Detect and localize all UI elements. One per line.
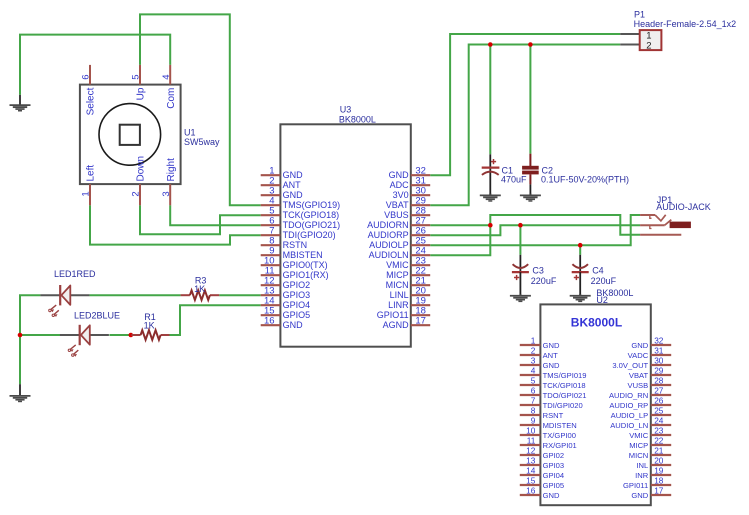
svg-text:RSNT: RSNT <box>543 411 564 420</box>
U3 pin 26 AUDIORP <box>368 226 431 241</box>
svg-text:6: 6 <box>81 75 92 80</box>
svg-text:GPI02: GPI02 <box>543 451 565 460</box>
U3 pin 24 AUDIOLN <box>369 246 431 261</box>
U2 pin 19 INR <box>635 465 671 480</box>
U3 pin 22 MICP <box>386 266 430 281</box>
U2 pin 15 GPI05 <box>520 475 564 490</box>
svg-text:17: 17 <box>415 316 426 327</box>
U3 pin 20 LINL <box>390 286 431 301</box>
U2 pin 1 GND <box>520 335 560 350</box>
svg-text:20: 20 <box>654 455 664 465</box>
wire U3 pin25 AUDIOLP to jack tip <box>430 215 640 245</box>
U3 pin 3 GND <box>261 186 303 201</box>
svg-text:GND: GND <box>283 320 304 330</box>
svg-text:ANT: ANT <box>543 351 559 360</box>
svg-text:220uF: 220uF <box>591 276 617 286</box>
svg-text:Right: Right <box>166 158 177 182</box>
svg-text:AUDIO-JACK: AUDIO-JACK <box>656 202 711 212</box>
U3 pin 18 GPIO11 <box>377 306 430 321</box>
wire U3 pin24 AUDIOLN to jack sleeve <box>430 215 640 255</box>
wire GND to LED1 anode <box>20 295 40 384</box>
svg-text:VMIC: VMIC <box>386 260 409 270</box>
U1 bottom pin 1 Left <box>81 165 97 206</box>
svg-text:TDI/GPI020: TDI/GPI020 <box>543 401 583 410</box>
wire LED1 to R3 <box>89 294 180 296</box>
label P1 refdes <box>634 10 645 20</box>
label C2 value 0.1UF-50V-20%(PTH) <box>541 174 629 184</box>
svg-text:5: 5 <box>531 375 536 385</box>
svg-text:2: 2 <box>646 40 651 51</box>
svg-text:32: 32 <box>654 335 664 345</box>
U2 pin 11 RX/GPI01 <box>520 435 577 450</box>
svg-text:GND: GND <box>389 170 410 180</box>
connector JP1 AUDIO-JACK <box>640 215 691 235</box>
U1 bottom pin 2 Down <box>131 156 147 205</box>
svg-text:11: 11 <box>527 435 536 445</box>
svg-text:VMIC: VMIC <box>629 431 649 440</box>
svg-text:ADC: ADC <box>390 180 410 190</box>
U2 pin 14 GPI04 <box>520 465 564 480</box>
U3 pin 30 3V0 <box>393 186 431 201</box>
svg-text:LINL: LINL <box>390 290 409 300</box>
U1 top pin 5 Up <box>131 65 147 100</box>
wire R3 to U3 pin13 GPIO3 <box>219 294 261 296</box>
svg-text:Down: Down <box>136 156 147 182</box>
svg-text:TMS(GPIO19): TMS(GPIO19) <box>283 200 341 210</box>
svg-text:2: 2 <box>531 345 536 355</box>
svg-text:16: 16 <box>264 316 275 327</box>
connector P1 Header-Female pin leads <box>620 34 640 45</box>
wire SW5way Left (pin1) to U3 pin7 TDI <box>90 205 261 244</box>
svg-text:INL: INL <box>636 461 648 470</box>
label R3 value 1K <box>194 284 205 294</box>
svg-text:AUDIORP: AUDIORP <box>368 230 409 240</box>
U2 pin 9 MDISTEN <box>520 415 577 430</box>
junction C4 node <box>578 243 583 248</box>
wire node to C3 <box>519 225 521 255</box>
wire R1 to U3 pin14 GPIO4 <box>170 305 261 335</box>
svg-text:VBUS: VBUS <box>384 210 409 220</box>
U3 pin 9 MBISTEN <box>261 246 323 261</box>
U3 pin 31 ADC <box>390 176 431 191</box>
wire VBAT rail to C2 <box>529 45 531 154</box>
U3 pin 17 AGND <box>383 316 431 331</box>
U2 pin 28 VUSB <box>628 375 672 390</box>
U2 pin 4 TMS/GPI019 <box>520 365 587 380</box>
svg-text:4: 4 <box>161 75 172 80</box>
svg-text:MICN: MICN <box>629 451 648 460</box>
U2 pin 23 VMIC <box>629 425 671 440</box>
label U1 value SW5way <box>184 137 220 147</box>
label C4 value 220uF <box>591 276 617 286</box>
op-amp U3 BK8000L IC body <box>280 124 410 346</box>
U2 pin 24 AUDIO_LN <box>610 415 671 430</box>
switch U1 SW5way body <box>80 85 181 185</box>
U3 pin 2 ANT <box>261 176 301 191</box>
label C3 refdes <box>532 266 544 276</box>
svg-text:10: 10 <box>526 425 536 435</box>
svg-text:AUDIORN: AUDIORN <box>367 220 409 230</box>
junction C3 node <box>518 223 523 228</box>
IC U2 BK8000L body <box>540 304 650 505</box>
svg-text:ANT: ANT <box>283 180 302 190</box>
label R3 refdes <box>195 276 207 286</box>
U3 pin 25 AUDIOLP <box>369 236 430 251</box>
U2 pin 12 GPI02 <box>520 445 564 460</box>
svg-text:29: 29 <box>654 365 664 375</box>
svg-text:2: 2 <box>131 191 142 196</box>
svg-text:19: 19 <box>654 465 664 475</box>
svg-text:TDO/GPI021: TDO/GPI021 <box>543 391 587 400</box>
svg-text:3: 3 <box>531 355 536 365</box>
svg-text:GPIO1(RX): GPIO1(RX) <box>283 270 329 280</box>
U3 pin 7 TDI(GPIO20) <box>261 226 336 241</box>
svg-text:U2: U2 <box>596 295 608 305</box>
LED LED2 (blue) <box>60 325 109 357</box>
svg-text:U1: U1 <box>184 128 196 138</box>
svg-text:MICP: MICP <box>386 270 409 280</box>
ground C2 ground <box>520 194 541 201</box>
svg-text:TDO(GPIO21): TDO(GPIO21) <box>283 220 341 230</box>
wire U3 pin29 VBAT to P1 pin2 <box>430 45 620 206</box>
U2 pin 31 VADC <box>628 345 672 360</box>
svg-text:470uF: 470uF <box>501 174 527 184</box>
svg-text:TX/GPI00: TX/GPI00 <box>543 431 576 440</box>
svg-text:LINR: LINR <box>388 300 409 310</box>
svg-text:GPIO2: GPIO2 <box>283 280 311 290</box>
svg-text:16: 16 <box>526 485 536 495</box>
svg-text:0.1UF-50V-20%(PTH): 0.1UF-50V-20%(PTH) <box>541 174 629 184</box>
svg-text:BK8000L: BK8000L <box>571 315 622 329</box>
U2 pin 3 GND <box>520 355 560 370</box>
svg-text:AUDIO_RP: AUDIO_RP <box>609 401 648 410</box>
junction AUDIORN node <box>488 223 493 228</box>
svg-text:GND: GND <box>543 491 560 500</box>
svg-text:GND: GND <box>543 341 560 350</box>
svg-text:RSTN: RSTN <box>283 240 308 250</box>
U2 pin 26 AUDIO_RP <box>609 395 671 410</box>
svg-text:AUDIO_LP: AUDIO_LP <box>611 411 649 420</box>
svg-text:VUSB: VUSB <box>628 381 649 390</box>
U3 pin 27 AUDIORN <box>367 216 430 231</box>
svg-text:22: 22 <box>654 435 664 445</box>
svg-text:Left: Left <box>86 165 97 182</box>
svg-text:5: 5 <box>131 75 142 80</box>
svg-text:LED1RED: LED1RED <box>54 269 96 279</box>
label U1 refdes <box>184 128 196 138</box>
U3 pin 12 GPIO2 <box>261 276 310 291</box>
U3 pin 32 GND <box>389 166 431 181</box>
U2 pin 30 3.0V_OUT <box>612 355 671 370</box>
capacitor C3 220uF <box>512 255 529 295</box>
svg-text:14: 14 <box>526 465 536 475</box>
svg-text:AUDIOLN: AUDIOLN <box>369 250 409 260</box>
label JP1 refdes <box>657 195 673 205</box>
U3 pin 14 GPIO4 <box>261 296 310 311</box>
label LED2BLUE <box>74 311 120 321</box>
U2 pin 17 GND <box>631 485 671 500</box>
capacitor C4 220uF <box>572 255 589 295</box>
U2 pin 2 ANT <box>520 345 558 360</box>
svg-text:GPIO0(TX): GPIO0(TX) <box>283 260 328 270</box>
svg-text:VADC: VADC <box>628 351 649 360</box>
U1 top pin 6 Select <box>81 65 97 115</box>
U3 pin 8 RSTN <box>261 236 307 251</box>
U3 pin 6 TDO(GPIO21) <box>261 216 340 231</box>
U3 pin 15 GPIO5 <box>261 306 310 321</box>
junction LED2-R1 node <box>129 333 134 338</box>
svg-text:1K: 1K <box>144 320 155 330</box>
U2 pin 25 AUDIO_LP <box>611 405 672 420</box>
wire node to C4 <box>579 245 581 255</box>
svg-text:23: 23 <box>654 425 664 435</box>
wire GND to SW5way Com (pin4) <box>20 35 170 95</box>
capacitor C1 470uF <box>482 154 500 194</box>
svg-text:4: 4 <box>531 365 536 375</box>
svg-text:C3: C3 <box>532 266 544 276</box>
svg-text:Select: Select <box>86 87 97 115</box>
svg-text:3: 3 <box>161 191 172 196</box>
svg-text:VBAT: VBAT <box>386 200 409 210</box>
connector P1 body <box>640 30 662 51</box>
svg-text:12: 12 <box>526 445 536 455</box>
ground C4 ground <box>570 294 591 301</box>
svg-text:U3: U3 <box>340 104 352 114</box>
U3 pin 21 MICN <box>386 276 431 291</box>
svg-text:27: 27 <box>654 385 664 395</box>
svg-text:GND: GND <box>543 361 560 370</box>
label C4 refdes <box>592 266 604 276</box>
U3 pin 11 GPIO1(RX) <box>261 266 329 281</box>
U2 pin 6 TDO/GPI021 <box>520 385 587 400</box>
svg-text:18: 18 <box>654 475 664 485</box>
wire U3 pin32 GND to P1 pin1 <box>430 34 620 175</box>
svg-text:GND: GND <box>631 491 648 500</box>
svg-text:GPIO11: GPIO11 <box>377 310 409 320</box>
svg-text:MICP: MICP <box>629 441 648 450</box>
wire SW5way Down (pin2) to U3 pin5 TCK <box>140 205 261 234</box>
U2 pin 7 TDI/GPI020 <box>520 395 583 410</box>
svg-text:Up: Up <box>136 87 147 100</box>
svg-text:MICN: MICN <box>386 280 409 290</box>
svg-text:25: 25 <box>654 405 664 415</box>
svg-text:RX/GPI01: RX/GPI01 <box>543 441 577 450</box>
wire SW5way Right (pin3) to U3 pin6 TDO <box>170 205 261 225</box>
U3 pin 10 GPIO0(TX) <box>261 256 328 271</box>
svg-text:GPI03: GPI03 <box>543 461 565 470</box>
svg-text:26: 26 <box>654 395 664 405</box>
label U2 refdes <box>596 295 608 305</box>
svg-text:AUDIOLP: AUDIOLP <box>369 240 409 250</box>
U2 pin 13 GPI03 <box>520 455 564 470</box>
svg-text:GND: GND <box>283 190 304 200</box>
svg-text:BK8000L: BK8000L <box>339 114 376 124</box>
svg-text:7: 7 <box>531 395 536 405</box>
U3 pin 29 VBAT <box>386 196 430 211</box>
U2 pin 8 RSNT <box>520 405 564 420</box>
label R1 refdes <box>144 312 156 322</box>
svg-text:GPIO3: GPIO3 <box>283 290 311 300</box>
label C2 refdes <box>542 165 554 175</box>
svg-text:6: 6 <box>531 385 536 395</box>
wire U3 pin27 AUDIORN to node <box>430 224 490 226</box>
svg-text:AGND: AGND <box>383 320 410 330</box>
svg-text:LED2BLUE: LED2BLUE <box>74 311 120 321</box>
svg-text:GPIO5: GPIO5 <box>283 310 311 320</box>
svg-text:30: 30 <box>654 355 664 365</box>
wire U3 pin26 AUDIORP to jack ring <box>430 225 640 235</box>
resistor R1 1K <box>132 330 170 340</box>
label C3 value 220uF <box>531 276 557 286</box>
svg-text:Com: Com <box>166 88 177 109</box>
svg-text:15: 15 <box>526 475 536 485</box>
U1 top pin 4 Com <box>161 65 177 109</box>
U2 pin 16 GND <box>520 485 560 500</box>
svg-text:Header-Female-2.54_1x2: Header-Female-2.54_1x2 <box>634 19 737 29</box>
U2 pin 18 GPI011 <box>623 475 671 490</box>
label U3 refdes <box>340 104 352 114</box>
U2 pin 5 TCK/GPI018 <box>520 375 586 390</box>
svg-text:GPI011: GPI011 <box>623 481 648 490</box>
svg-text:TCK/GPI018: TCK/GPI018 <box>543 381 586 390</box>
label U3 value BK8000L <box>339 114 376 124</box>
svg-text:VBAT: VBAT <box>629 371 649 380</box>
svg-text:GND: GND <box>283 170 304 180</box>
junction VBAT-C2 <box>528 42 533 47</box>
ground bottom-left GND <box>10 384 31 401</box>
wire SW5way Up (pin5) to U3 pin4 TMS <box>140 14 261 205</box>
U3 pin 28 VBUS <box>384 206 430 221</box>
svg-text:SW5way: SW5way <box>184 137 220 147</box>
svg-text:24: 24 <box>654 415 664 425</box>
junction LED ground node <box>18 333 23 338</box>
U3 pin 16 GND <box>261 316 303 331</box>
label R1 value 1K <box>144 320 155 330</box>
svg-text:1: 1 <box>531 335 536 345</box>
label LED1RED <box>54 269 96 279</box>
svg-text:TDI(GPIO20): TDI(GPIO20) <box>283 230 336 240</box>
svg-text:17: 17 <box>654 485 664 495</box>
svg-text:13: 13 <box>526 455 536 465</box>
U3 pin 5 TCK(GPIO18) <box>261 206 339 221</box>
label JP1 value AUDIO-JACK <box>656 202 711 212</box>
U2 pin 20 INL <box>636 455 671 470</box>
label C1 refdes <box>502 165 514 175</box>
svg-text:AUDIO_RN: AUDIO_RN <box>609 391 648 400</box>
svg-text:28: 28 <box>654 375 664 385</box>
U3 pin 23 VMIC <box>386 256 430 271</box>
svg-text:3.0V_OUT: 3.0V_OUT <box>612 361 648 370</box>
svg-text:INR: INR <box>635 471 649 480</box>
svg-text:MDISTEN: MDISTEN <box>543 421 577 430</box>
U3 pin 13 GPIO3 <box>261 286 310 301</box>
svg-text:1K: 1K <box>194 284 205 294</box>
svg-text:TMS/GPI019: TMS/GPI019 <box>543 371 587 380</box>
ground top-left GND <box>10 95 31 111</box>
junction VBAT-C1 <box>488 42 493 47</box>
U2 pin 27 AUDIO_RN <box>609 385 671 400</box>
resistor R3 1K <box>181 290 220 300</box>
svg-text:9: 9 <box>531 415 536 425</box>
ground C1 ground <box>480 194 501 201</box>
U2 pin 32 GND <box>631 335 671 350</box>
label C1 value 470uF <box>501 174 527 184</box>
svg-text:1: 1 <box>81 191 92 196</box>
U1 bottom pin 3 Right <box>161 158 177 205</box>
svg-text:AUDIO_LN: AUDIO_LN <box>610 421 648 430</box>
U3 pin 4 TMS(GPIO19) <box>261 196 340 211</box>
svg-text:GPI04: GPI04 <box>543 471 565 480</box>
svg-text:220uF: 220uF <box>531 276 557 286</box>
wire GND tap to LED2 anode <box>20 334 60 336</box>
U3 pin 1 GND <box>261 166 303 181</box>
capacitor C2 0.1UF <box>522 154 539 195</box>
label U2 value BK8000L <box>596 288 633 298</box>
svg-text:C4: C4 <box>592 266 604 276</box>
svg-text:TCK(GPIO18): TCK(GPIO18) <box>283 210 340 220</box>
svg-text:MBISTEN: MBISTEN <box>283 250 323 260</box>
svg-text:GPI05: GPI05 <box>543 481 565 490</box>
U2 pin 10 TX/GPI00 <box>520 425 576 440</box>
U2 pin 22 MICP <box>629 435 671 450</box>
svg-text:21: 21 <box>654 445 664 455</box>
wire LED2 to R1 <box>109 334 130 336</box>
label P1 value Header-Female-2.54_1x2 <box>634 19 737 29</box>
svg-text:31: 31 <box>654 345 664 355</box>
svg-text:GPIO4: GPIO4 <box>283 300 311 310</box>
U2 pin 21 MICN <box>629 445 671 460</box>
LED LED1 (red) <box>40 285 89 317</box>
ground C3 ground <box>510 294 531 301</box>
svg-text:3V0: 3V0 <box>393 190 409 200</box>
wire VBAT rail to C1 <box>489 45 491 155</box>
U3 pin 19 LINR <box>388 296 430 311</box>
svg-text:8: 8 <box>531 405 536 415</box>
U2 pin 29 VBAT <box>629 365 671 380</box>
svg-text:GND: GND <box>631 341 648 350</box>
